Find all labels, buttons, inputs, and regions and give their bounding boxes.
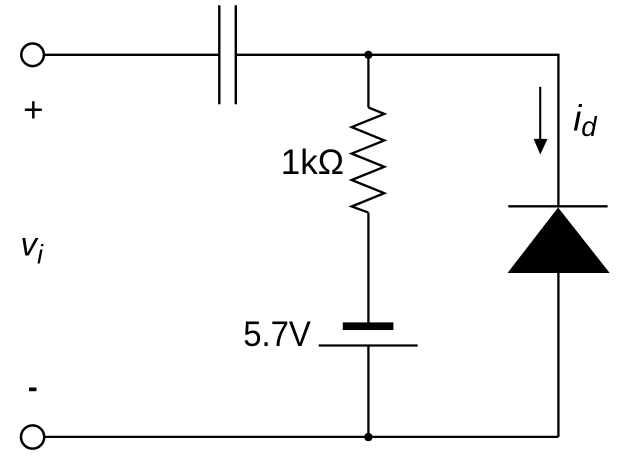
svg-text:id: id (573, 98, 598, 142)
terminal circle bottom-left (21, 425, 44, 448)
resistor 1k zigzag (352, 107, 385, 212)
terminal circle top-left (21, 44, 44, 67)
wire capacitor to top-right corner and down right side (236, 55, 559, 208)
label minus (29, 388, 37, 392)
node junction bottom (364, 433, 372, 441)
wire bottom rail (45, 436, 559, 438)
svg-text:vi: vi (21, 225, 45, 269)
wire battery to bottom node (367, 346, 369, 437)
battery V1 negative plate (thin long line) (319, 344, 418, 346)
diode D1 cathode bar (508, 205, 607, 207)
wire top-left to capacitor (45, 54, 219, 56)
wire junction to resistor (367, 55, 369, 108)
svg-text:1kΩ: 1kΩ (281, 143, 344, 182)
current arrow i_d (534, 87, 548, 155)
node junction top (364, 51, 372, 59)
wire diode to bottom-right corner (557, 273, 559, 437)
capacitor C1 (219, 5, 236, 104)
svg-text:5.7V: 5.7V (243, 315, 311, 354)
svg-text:+: + (23, 91, 43, 130)
battery V1 positive plate (thick bar) (343, 322, 394, 330)
wire resistor to battery (367, 213, 369, 323)
diode D1 triangle (508, 208, 610, 274)
